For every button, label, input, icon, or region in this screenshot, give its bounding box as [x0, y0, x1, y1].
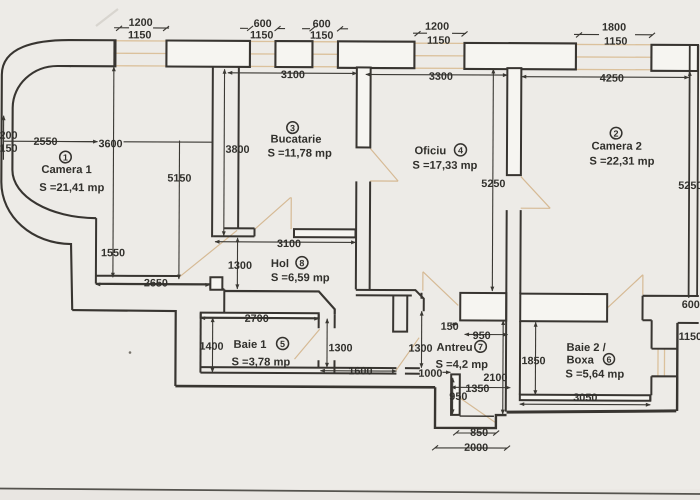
svg-text:1300: 1300	[409, 343, 433, 355]
svg-text:S =3,78 mp: S =3,78 mp	[231, 356, 290, 368]
wall baie2 north west band	[520, 294, 607, 322]
circ 4	[454, 144, 466, 156]
door swing hol-antreu	[423, 272, 459, 306]
svg-text:Camera 2: Camera 2	[591, 141, 641, 153]
dim 1850 line	[534, 322, 536, 394]
window W1 glazing	[115, 41, 166, 66]
wall baie1 east lower	[318, 360, 334, 373]
exterior south wall corridor	[175, 386, 435, 387]
dim 600 W2 ticks	[240, 26, 285, 31]
scan bottom edge	[0, 490, 700, 500]
paper smudge top-left	[96, 9, 118, 26]
dim 3300 line	[366, 73, 507, 76]
dim 200/150 left line	[2, 116, 4, 160]
door swing camera2	[521, 177, 551, 209]
svg-text:850: 850	[470, 427, 488, 439]
wall corridor north (baie1 south)	[200, 367, 419, 374]
wall baie1 west	[199, 313, 201, 373]
dim 5250 mid line	[492, 69, 493, 291]
dim 1350 line	[451, 386, 510, 388]
wall bucatarie south west segment	[213, 228, 254, 236]
door swing entrance	[460, 398, 497, 423]
dim 2650 line	[96, 283, 210, 286]
duct shaft	[393, 296, 407, 332]
hol floor south edge	[224, 291, 335, 314]
circ 3	[287, 122, 299, 134]
wall camera1/bucatarie	[212, 67, 239, 238]
wall baie1 east upper	[319, 314, 335, 328]
svg-text:3: 3	[290, 123, 295, 133]
svg-text:7: 7	[478, 342, 483, 352]
wall hol/oficiu lower	[356, 181, 370, 289]
exterior step south of camera1	[72, 310, 176, 386]
svg-text:2000: 2000	[464, 442, 488, 454]
svg-text:1550: 1550	[101, 247, 125, 259]
door swing baie1	[294, 329, 319, 359]
svg-text:6: 6	[606, 355, 611, 365]
svg-text:Oficiu: Oficiu	[414, 145, 446, 157]
dim 150 pointer	[450, 323, 457, 325]
svg-text:1400: 1400	[200, 341, 224, 353]
svg-text:1150: 1150	[679, 331, 700, 343]
window W5 glazing	[576, 44, 652, 69]
svg-text:2: 2	[614, 129, 619, 139]
wall baie2 south	[520, 395, 651, 401]
svg-text:Boxa: Boxa	[566, 354, 594, 366]
wall baie1 north	[201, 313, 319, 319]
svg-text:5250: 5250	[481, 178, 505, 190]
top wall block W1-W2	[166, 41, 250, 67]
svg-text:2700: 2700	[245, 313, 269, 325]
wall baie2 north east band	[642, 296, 698, 323]
svg-text:950: 950	[449, 391, 467, 403]
svg-text:3600: 3600	[98, 138, 122, 150]
dim 1400 line	[211, 318, 213, 372]
svg-text:200: 200	[0, 130, 18, 142]
dim 1300 hol line	[236, 238, 238, 289]
svg-text:600: 600	[254, 18, 272, 30]
curved wall top-left inner	[12, 66, 97, 218]
dim 5150 line	[178, 141, 181, 279]
door swing baie2	[608, 275, 643, 308]
svg-text:1150: 1150	[310, 30, 333, 42]
dim 850 line	[453, 430, 499, 435]
svg-text:600: 600	[313, 18, 331, 30]
dim 1200 W4 ticks	[413, 31, 468, 36]
svg-text:1150: 1150	[128, 29, 151, 41]
door swing antreu-coridor	[396, 338, 419, 371]
dim 3100 upper line	[228, 72, 357, 75]
window W6 right wall glazing	[658, 349, 665, 376]
svg-text:2550: 2550	[33, 136, 57, 148]
svg-text:S =17,33 mp: S =17,33 mp	[412, 160, 477, 172]
door swing camera1	[180, 230, 237, 277]
svg-text:S =11,78 mp: S =11,78 mp	[267, 147, 332, 159]
dim 3800 line	[223, 69, 226, 235]
dim 3100 lower line	[215, 241, 355, 244]
svg-text:1200: 1200	[425, 21, 449, 33]
svg-text:Antreu: Antreu	[437, 342, 473, 354]
exterior south-east wall	[507, 410, 677, 413]
svg-text:8: 8	[299, 258, 304, 268]
svg-text:3300: 3300	[429, 71, 453, 83]
svg-text:3100: 3100	[277, 238, 301, 250]
svg-text:1150: 1150	[427, 35, 450, 47]
dim 1800 W5 ticks	[574, 32, 655, 37]
top wall block W5-right	[651, 45, 698, 71]
wall hol south	[356, 290, 424, 311]
door swing bucatarie	[255, 197, 292, 229]
door swing oficiu	[370, 148, 398, 181]
window W4 glazing	[414, 43, 464, 68]
svg-text:1300: 1300	[329, 342, 353, 354]
wall bucatarie south east segment	[294, 229, 356, 237]
svg-text:S =4,2 mp: S =4,2 mp	[435, 359, 488, 371]
svg-text:4: 4	[458, 145, 463, 155]
svg-text:5150: 5150	[167, 173, 191, 185]
svg-text:3050: 3050	[573, 392, 597, 404]
svg-text:1350: 1350	[465, 383, 489, 395]
window W3 glazing	[312, 42, 338, 67]
circ 2	[610, 127, 622, 139]
svg-text:Camera 1: Camera 1	[41, 164, 91, 176]
svg-text:2650: 2650	[144, 277, 168, 289]
svg-text:1600: 1600	[348, 365, 372, 377]
top wall block W2-W3	[275, 41, 312, 67]
svg-text:1300: 1300	[228, 260, 252, 272]
entrance threshold	[460, 415, 494, 417]
svg-text:Baie 2 /: Baie 2 /	[567, 342, 606, 354]
dim 2550/3600 line	[4, 140, 96, 142]
svg-text:S =21,41 mp: S =21,41 mp	[39, 182, 104, 194]
wall baie2 west	[506, 210, 521, 412]
dim 5250 right arrows	[689, 71, 690, 297]
svg-text:5: 5	[280, 339, 285, 349]
svg-text:3100: 3100	[281, 69, 305, 81]
circ 7	[475, 341, 487, 353]
circ 8	[296, 257, 308, 269]
svg-text:S =22,31 mp: S =22,31 mp	[589, 155, 654, 167]
dim 600 W3 ticks	[302, 26, 348, 31]
svg-text:Bucatarie: Bucatarie	[271, 133, 322, 145]
wall hol/oficiu upper	[356, 67, 370, 147]
dim 1300 antreu line	[420, 311, 422, 367]
svg-text:S =6,59 mp: S =6,59 mp	[271, 272, 330, 284]
wall oficiu/camera2 upper	[507, 68, 522, 175]
top wall block W3-W4	[338, 41, 415, 68]
wall camera1 east jamb	[113, 40, 115, 66]
top wall block W4-W5	[464, 43, 576, 70]
exterior right-bottom wall	[676, 323, 679, 411]
dim 1600 line	[320, 370, 396, 372]
circled room numbers	[59, 121, 622, 365]
top wall block left of W1	[70, 40, 116, 66]
dim 2700 line	[201, 317, 319, 320]
entrance recess	[435, 387, 507, 428]
circ 6	[603, 354, 614, 365]
window W2 glazing	[250, 41, 276, 66]
notch block south of camera1 wall	[210, 277, 222, 290]
dim 1550 vertical line	[112, 67, 115, 277]
dim 1300 baie1 line	[326, 319, 328, 367]
entrance stub wall	[451, 374, 460, 415]
svg-text:1850: 1850	[521, 355, 545, 367]
dim 1200 W1 ticks	[114, 26, 169, 31]
svg-text:150: 150	[441, 321, 459, 333]
svg-text:1: 1	[63, 153, 68, 163]
svg-text:5250: 5250	[678, 180, 700, 192]
circ 5	[277, 338, 289, 350]
svg-text:1800: 1800	[602, 22, 626, 34]
dim 2100 line	[502, 321, 504, 414]
dim 950 upper line	[465, 333, 508, 335]
dim 950 lower line	[452, 378, 454, 414]
svg-text:600: 600	[682, 299, 700, 311]
exterior right wall inner face	[689, 44, 699, 296]
svg-text:3800: 3800	[225, 144, 249, 156]
svg-text:Baie 1: Baie 1	[234, 339, 267, 351]
wall camera1 south	[96, 218, 225, 313]
paper speck	[129, 351, 132, 354]
circ 1	[60, 151, 72, 163]
baie2 window niche	[650, 320, 677, 411]
dim 2000 line	[432, 445, 510, 450]
dim 3050 line	[520, 403, 650, 406]
svg-text:1200: 1200	[129, 17, 153, 29]
curved wall top-left outer	[1, 40, 74, 310]
dim 4250 line	[522, 76, 689, 79]
svg-text:S =5,64 mp: S =5,64 mp	[565, 368, 624, 380]
svg-text:4250: 4250	[600, 73, 624, 85]
dim 1000 pointer	[442, 371, 450, 373]
wall antreu north band (C-block)	[460, 293, 506, 321]
svg-text:1150: 1150	[250, 29, 273, 41]
svg-text:1150: 1150	[604, 36, 627, 48]
svg-text:150: 150	[0, 143, 18, 155]
svg-text:Hol: Hol	[271, 258, 289, 270]
